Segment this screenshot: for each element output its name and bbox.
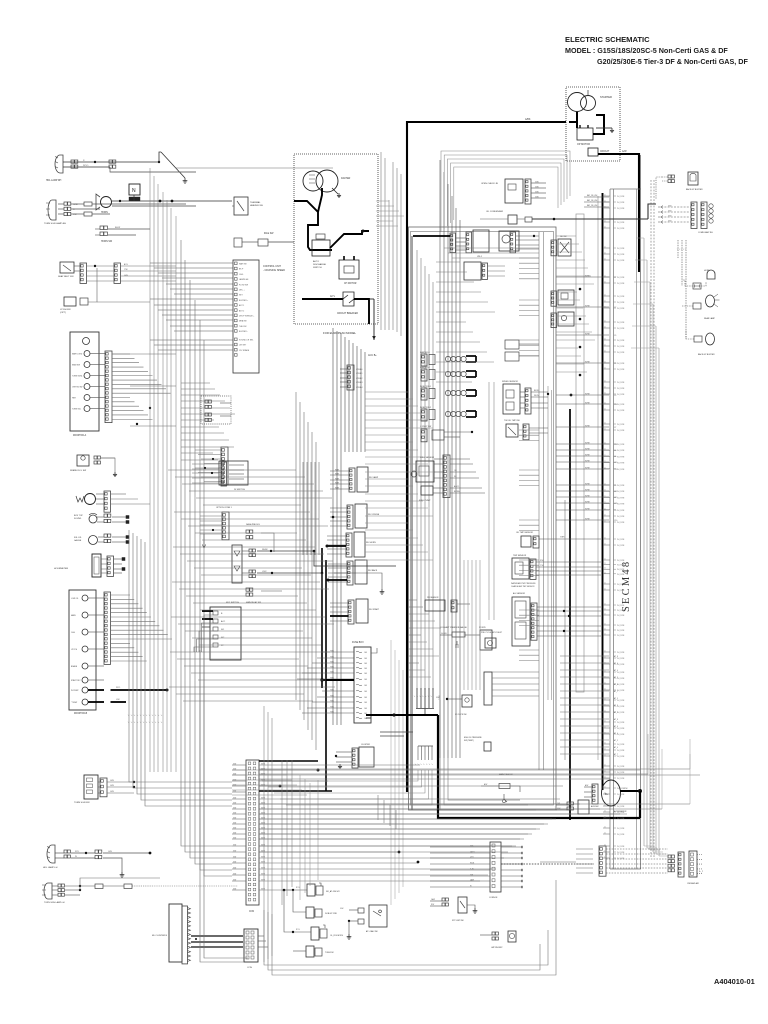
starter assembly box [566,87,620,161]
svg-text:NE SW: NE SW [560,236,567,238]
svg-text:INJ_PWM: INJ_PWM [617,744,625,746]
seat belt switch [60,262,74,273]
svg-text:G/W: G/W [233,844,237,846]
wires con2 right [258,935,264,937]
svg-text:C1: C1 [604,765,606,767]
svg-text:G/W: G/W [233,779,237,781]
svg-text:C1: C1 [604,307,606,309]
svg-text:INJ_PWM: INJ_PWM [617,539,625,541]
solenoid dob-up [306,907,314,918]
svg-text:C1: C1 [604,651,606,653]
svg-text:INJ_PWM: INJ_PWM [617,828,625,830]
svg-text:R/W: R/W [624,788,628,790]
svg-text:INJ_PWM: INJ_PWM [617,766,625,768]
svg-text:G/W: G/W [668,205,672,207]
bottom right connector cluster [599,846,606,876]
svg-text:C1: C1 [604,387,606,389]
crossing wires left to central bundle [181,382,210,384]
svg-text:W/RE: W/RE [585,402,590,404]
thick wires key switch [202,610,213,612]
svg-text:AST 2: AST 2 [239,309,244,312]
thick jumper horn [327,545,346,547]
svg-text:SPARE RL U SW: SPARE RL U SW [70,469,86,472]
svg-text:C1: C1 [604,777,606,779]
svg-text:C1: C1 [604,544,606,546]
svg-text:INJ_PWM: INJ_PWM [617,404,625,406]
back-up buzzer top [688,172,698,185]
svg-text:C1: C1 [604,276,606,278]
control unit cruise speed connector [233,260,259,373]
svg-text:C1: C1 [604,207,606,209]
wire bundle left inner [129,530,232,782]
hourmeter [92,554,101,577]
svg-text:AT_6: AT_6 [614,725,618,728]
svg-text:NO_AT 4X4 S/V: NO_AT 4X4 S/V [326,890,340,893]
svg-text:CIRCUIT: CIRCUIT [600,151,610,153]
relay lamp [357,467,368,492]
svg-text:STP LMP SW: STP LMP SW [452,920,464,922]
svg-text:DISCHARGE: DISCHARGE [313,263,327,266]
svg-text:INJ_PWM: INJ_PWM [617,684,625,686]
svg-text:INJ_PWM: INJ_PWM [617,569,625,571]
svg-text:CONN-9F: CONN-9F [489,897,498,899]
svg-text:IDLE SW: IDLE SW [264,233,274,235]
right bundle long verticals [643,238,645,846]
svg-text:W/RE: W/RE [585,425,590,427]
thick fuse feeds [321,679,354,681]
svg-text:HORN: HORN [704,270,710,272]
ignition coil box [499,231,519,251]
svg-text:C1: C1 [604,521,606,523]
svg-text:INJ_PWM: INJ_PWM [617,852,625,854]
svg-text:C1: C1 [604,589,606,591]
svg-text:AT_2: AT_2 [614,739,618,742]
svg-text:G/W: G/W [668,220,672,222]
thermal heater switch [234,197,248,215]
svg-text:I/C OL PS SW: I/C OL PS SW [455,714,467,716]
svg-text:G/W: G/W [124,275,128,277]
svg-text:GL/WH: GL/WH [441,633,447,635]
svg-text:INJ_PWM: INJ_PWM [617,202,625,204]
svg-text:INJ_PWM: INJ_PWM [617,846,625,848]
svg-text:G/W: G/W [668,210,672,212]
svg-text:CH MOTOR: CH MOTOR [344,283,357,285]
svg-text:C1: C1 [604,403,606,405]
svg-text:INJ_PWM: INJ_PWM [617,605,625,607]
monitor A connector strip [105,351,112,423]
main relay [232,545,242,583]
svg-text:W/RE: W/RE [585,333,590,335]
wires solenoids [284,889,307,891]
svg-text:C1: C1 [604,327,606,329]
svg-text:C1: C1 [604,727,606,729]
svg-text:FOR EUROPEAN MODEL: FOR EUROPEAN MODEL [323,331,357,335]
svg-text:FLOW SW: FLOW SW [239,284,248,286]
svg-text:W/RE: W/RE [585,305,590,307]
ground fog lamp [121,872,123,875]
svg-text:INJ_PWM: INJ_PWM [617,818,625,820]
svg-text:W/RE: W/RE [585,501,590,503]
svg-text:C1: C1 [604,461,606,463]
wire loop top nest [441,151,570,232]
svg-text:INJ_PWM: INJ_PWM [617,712,625,714]
wires fan into cluster left [576,848,593,850]
svg-text:AT_4: AT_4 [614,669,618,672]
svg-text:C1: C1 [604,381,606,383]
svg-text:C1: C1 [604,689,606,691]
svg-text:W/RE: W/RE [585,393,590,395]
svg-text:INJ_PWM: INJ_PWM [617,352,625,354]
svg-text:SWITCH: SWITCH [313,267,322,269]
svg-text:MONITOR-B: MONITOR-B [74,713,88,715]
svg-text:BUZZER -: BUZZER - [239,331,248,333]
svg-text:INJ_PWM: INJ_PWM [617,615,625,617]
svg-text:G20/25/30E-5 Tier-3 DF & Non-C: G20/25/30E-5 Tier-3 DF & Non-Certi GAS, … [597,57,748,66]
relay back [355,560,367,584]
svg-text:OPEN CHECK JB: OPEN CHECK JB [481,183,498,185]
svg-text:CHARGE AIR TMP SENSOR: CHARGE AIR TMP SENSOR [511,585,535,588]
svg-text:INJ_PWM: INJ_PWM [617,208,625,210]
svg-text:AUTO: AUTO [313,260,319,263]
svg-text:INJ_PWM: INJ_PWM [617,322,625,324]
svg-text:G/W: G/W [233,807,237,809]
svg-text:G/W: G/W [535,186,539,188]
alternator [602,780,621,806]
ground stop lamp [467,905,475,908]
svg-text:G/W: G/W [340,908,344,910]
svg-text:G/W: G/W [233,812,237,814]
ml cluster box [169,904,182,962]
svg-text:BCK TOP: BCK TOP [74,515,83,517]
svg-text:C1: C1 [604,295,606,297]
fan out wires below labels [262,770,418,781]
solenoid tob-rok [306,946,314,957]
wire bundle left main [149,168,151,772]
svg-text:WATER/AIR-TMP PRESSURE: WATER/AIR-TMP PRESSURE [511,582,536,585]
wires right of engine box to secm [556,235,576,237]
main harness vertical dark [411,236,413,810]
svg-text:Y/W: Y/W [124,269,128,271]
svg-text:C5: C5 [614,485,616,487]
svg-text:TURN SGNL: TURN SGNL [72,376,82,378]
relay cruise [355,504,367,528]
svg-text:C1: C1 [604,502,606,504]
wires main relay [242,550,249,552]
svg-text:AT_8: AT_8 [614,718,618,721]
svg-text:TURN SGL: TURN SGL [72,409,81,411]
svg-text:INJ_PWM: INJ_PWM [617,450,625,452]
cluster conn pairs [668,855,671,858]
svg-text:INJ_PWM: INJ_PWM [617,388,625,390]
svg-text:C1: C1 [604,629,606,631]
svg-text:INJ_PWM: INJ_PWM [617,277,625,279]
svg-text:INJ_PWM: INJ_PWM [617,254,625,256]
svg-text:INJECTOR-2: INJECTOR-2 [420,407,431,409]
svg-text:INJ_PWM: INJ_PWM [617,584,625,586]
svg-text:R/YL: R/YL [75,851,79,853]
svg-text:TURN SGN LAMP-LH: TURN SGN LAMP-LH [44,901,65,904]
svg-text:INJ_PWM: INJ_PWM [617,788,625,790]
right vertical single [640,155,642,869]
wire bundle CON column [439,160,441,758]
svg-text:G/W: G/W [233,861,237,863]
ic ol ps switch [462,695,472,707]
svg-text:R/W: R/W [540,560,544,562]
svg-text:INJ_PWM: INJ_PWM [617,346,625,348]
svg-text:C1: C1 [604,259,606,261]
svg-text:W/RE: W/RE [585,508,590,510]
thick fuse output right [366,717,371,719]
svg-text:C1: C1 [604,490,606,492]
vr-1 box [473,230,489,252]
svg-text:INJ_PWM: INJ_PWM [617,382,625,384]
bottom big loop wires [264,910,548,965]
svg-text:C1: C1 [604,771,606,773]
svg-text:G/RE: G/RE [261,856,265,858]
svg-text:W/RE: W/RE [585,467,590,469]
svg-text:C1: C1 [604,749,606,751]
svg-text:C5: C5 [614,395,616,397]
fog lamp LH [47,845,55,863]
wires di switch left [192,463,219,465]
svg-text:LP/RA-1: LP/RA-1 [356,372,362,375]
dashed verticals right lamps [681,240,683,286]
injector row 1 [421,354,427,366]
nested box closes bottom [440,700,536,810]
svg-text:BAT_RE_WH: BAT_RE_WH [587,204,598,207]
distributor [303,171,323,191]
svg-text:C1: C1 [604,827,606,829]
svg-text:C1: C1 [604,282,606,284]
wire bundle central [332,328,334,725]
svg-text:W: W [75,856,77,858]
svg-text:INJ_PWM: INJ_PWM [617,806,625,808]
main connector CON strip [246,760,259,905]
extra horizontals lower center [408,599,417,601]
svg-text:C1: C1 [604,755,606,757]
svg-text:12V SPARE: 12V SPARE [239,349,250,352]
wire bundle engine lower solid [416,688,418,708]
svg-text:CON: CON [247,967,252,969]
svg-text:G/W: G/W [233,827,237,829]
svg-text:INJ_PWM: INJ_PWM [617,228,625,230]
svg-text:C1: C1 [604,508,606,510]
svg-text:G/W: G/W [535,196,539,198]
svg-text:INJ_PWM: INJ_PWM [617,456,625,458]
svg-text:A/W: A/W [585,784,589,787]
svg-text:LMP NN INSP: LMP NN INSP [491,947,503,949]
svg-text:INJ_PWM: INJ_PWM [617,491,625,493]
svg-text:COOLANT T/SENSOR-GAUGE: COOLANT T/SENSOR-GAUGE [440,626,467,629]
thick wire CON row1 [259,760,318,762]
svg-text:INJ_PWM: INJ_PWM [617,545,625,547]
svg-text:W/CB: W/CB [470,862,474,864]
svg-text:MASTER-3: MASTER-3 [420,351,430,354]
svg-text:G/W: G/W [233,873,237,875]
svg-text:C1: C1 [604,563,606,565]
thick bus down to bottom [438,715,640,818]
svg-text:G/W: G/W [110,785,114,787]
svg-text:OPTION CONN 1: OPTION CONN 1 [216,507,233,509]
long haul wires from CON to right [259,768,690,770]
svg-text:INJ_PWM: INJ_PWM [617,756,625,758]
svg-text:G/RE: G/RE [261,797,265,799]
svg-text:LP R M: LP R M [71,649,77,651]
svg-text:Y_W: Y_W [470,868,474,870]
spare relay switch [77,455,89,466]
svg-text:SW (TEMP): SW (TEMP) [464,740,474,742]
svg-text:GAUGE: GAUGE [74,539,82,542]
svg-text:C1: C1 [604,362,606,364]
svg-text:BK/WH: BK/WH [454,491,461,493]
svg-text:MONITOR-A: MONITOR-A [73,434,87,437]
svg-text:INJ_PWM: INJ_PWM [617,635,625,637]
svg-text:OL_ROOM S/V: OL_ROOM S/V [330,935,344,937]
svg-text:BUZZER +: BUZZER + [239,300,249,302]
svg-text:G/RE: G/RE [261,779,265,781]
svg-text:INJ_PWM: INJ_PWM [617,625,625,627]
svg-text:C1: C1 [604,845,606,847]
svg-text:C1: C1 [604,351,606,353]
svg-text:A/W: A/W [622,150,627,153]
svg-text:RLY-CRUISE: RLY-CRUISE [368,514,380,516]
svg-text:HORN: HORN [101,212,108,214]
svg-text:AG/YL: AG/YL [454,485,459,488]
solenoid ol room [311,927,319,940]
svg-text:W/RE: W/RE [585,448,590,450]
svg-text:C1: C1 [604,699,606,701]
svg-text:W/RE: W/RE [585,454,590,456]
svg-text:HDL LAMP-LH: HDL LAMP-LH [43,866,58,869]
svg-text:MAIN RELAY SW: MAIN RELAY SW [246,601,261,604]
wire breaker down to acc [354,299,369,324]
svg-text:C1: C1 [604,568,606,570]
wires from harness to right top [584,196,609,198]
svg-text:G/W: G/W [233,802,237,804]
svg-text:Y/W: Y/W [470,874,474,876]
svg-text:G/RE: G/RE [261,888,265,890]
verticals bundle to bottom [263,706,265,962]
svg-text:ENG OIL PRESSURE: ENG OIL PRESSURE [464,737,482,739]
svg-text:INJ_PWM: INJ_PWM [617,834,625,836]
wires key switch bottom fan [204,615,213,652]
long dotted wire conn9f [501,863,594,865]
wire top single [233,130,436,132]
monitor B connector [104,592,111,664]
bottom left corner nest [232,769,282,771]
svg-text:G/BR: G/BR [560,537,565,539]
svg-text:C1: C1 [604,583,606,585]
svg-text:REAR LAMP: REAR LAMP [704,317,716,320]
monitor B box [69,590,96,710]
svg-text:RE/W: RE/W [534,395,539,397]
wire condenser dark [532,218,648,220]
svg-text:BE/W: BE/W [534,390,539,392]
svg-text:C1: C1 [604,227,606,229]
svg-text:AT_8: AT_8 [614,655,618,658]
svg-text:C1: C1 [604,409,606,411]
svg-text:C1: C1 [604,455,606,457]
svg-text:O S W: O S W [439,695,441,700]
rear lamp right [706,295,715,307]
svg-text:INJ_PWM: INJ_PWM [617,222,625,224]
option connector strip 447 [221,447,228,485]
pin rows tall connector [603,195,610,197]
svg-text:W/RE: W/RE [585,460,590,462]
wire bundle secm left [538,232,540,770]
svg-text:RLY-LAMP: RLY-LAMP [369,476,379,479]
lower center component [464,262,481,280]
svg-text:AT_5: AT_5 [614,697,618,700]
svg-text:G/RE: G/RE [261,873,265,875]
svg-text:IGNITER: IGNITER [341,178,351,180]
svg-text:MEA SW: MEA SW [239,320,247,323]
injector row 2 [421,369,427,381]
svg-text:INJ_PWM: INJ_PWM [617,672,625,674]
combi lamp RH [691,202,697,229]
coil rows center [505,340,519,349]
svg-text:INJ_PWM: INJ_PWM [617,504,625,506]
svg-text:C0: C0 [614,510,616,512]
svg-text:(OPT): (OPT) [60,312,66,314]
svg-text:C1: C1 [604,705,606,707]
thick wires european box [294,201,332,250]
svg-text:MASTER-4: MASTER-4 [420,366,430,369]
svg-text:C10: C10 [614,520,617,522]
svg-text:G/W: G/W [233,888,237,890]
svg-text:MODEL : G15S/18S/20SC-5 Non-Ce: MODEL : G15S/18S/20SC-5 Non-Certi GAS & … [565,46,728,55]
svg-text:LAMP/LHE: LAMP/LHE [239,278,249,281]
circuit breaker european [302,298,343,300]
verticals left of bus [390,640,392,905]
svg-text:W/YO: W/YO [83,165,89,167]
svg-text:A/L SENSOR: A/L SENSOR [513,592,525,595]
thick wires monitor B [88,689,104,691]
junction dots bottom fan [398,851,401,854]
wire bundle center-box right edge [488,382,490,620]
svg-text:C1: C1 [604,559,606,561]
backup buzzer lower right [706,333,715,345]
svg-text:G/W: G/W [233,784,237,786]
svg-text:C1: C1 [604,833,606,835]
svg-text:C1: C1 [604,321,606,323]
svg-text:W/RE: W/RE [585,489,590,491]
starter motor [568,93,587,112]
svg-text:INJ_PWM: INJ_PWM [617,728,625,730]
svg-text:C1: C1 [604,683,606,685]
svg-text:DROP S/RELAY +: DROP S/RELAY + [239,315,255,318]
svg-text:C1: C1 [604,443,606,445]
svg-text:LP RH SW: LP RH SW [60,309,71,311]
svg-text:INJ_PWM: INJ_PWM [617,196,625,198]
dark pair lines left of bus [380,731,413,733]
svg-text:C1: C1 [604,429,606,431]
auto choke box [312,240,330,256]
svg-text:LP/RA-4: LP/RA-4 [356,386,362,389]
engine box nested rectangles [409,227,557,810]
svg-text:C1: C1 [604,609,606,611]
svg-text:INJ_PWM: INJ_PWM [617,248,625,250]
svg-text:R/W: R/W [431,904,435,906]
svg-text:FUSE BOX: FUSE BOX [352,642,364,644]
svg-text:G/W: G/W [233,797,237,799]
misc long horizontals left-center [176,167,333,169]
svg-text:C1: C1 [604,851,606,853]
svg-text:AUX MIC: AUX MIC [591,805,600,808]
svg-text:INJ_PWM: INJ_PWM [617,430,625,432]
wires right bundle into cluster [644,845,654,847]
svg-text:C1: C1 [604,393,606,395]
